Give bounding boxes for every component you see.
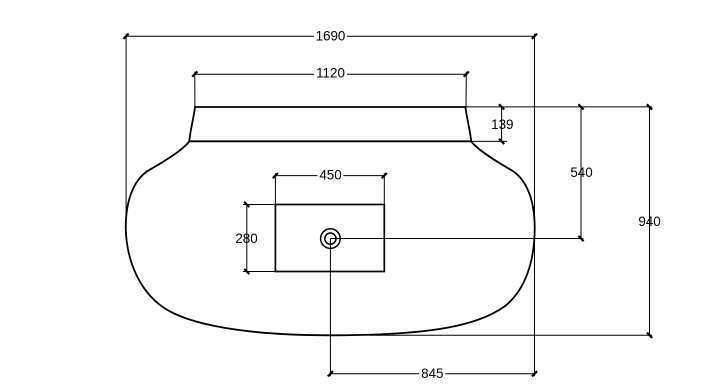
svg-text:940: 940 [638, 214, 660, 229]
svg-text:139: 139 [491, 117, 513, 132]
svg-text:1690: 1690 [316, 28, 346, 43]
svg-text:280: 280 [235, 231, 257, 246]
svg-text:450: 450 [319, 168, 341, 183]
svg-text:845: 845 [421, 366, 443, 381]
svg-text:540: 540 [570, 165, 592, 180]
svg-text:1120: 1120 [316, 66, 345, 81]
